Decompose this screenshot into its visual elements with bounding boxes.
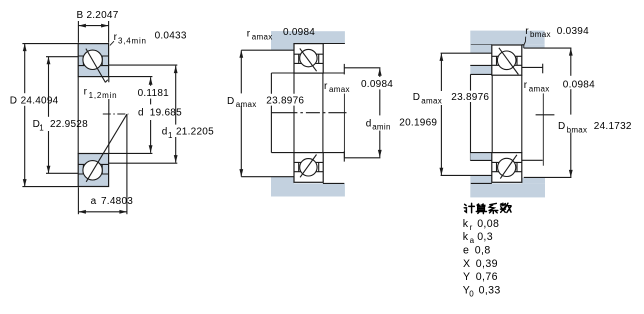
bearing left face line between sections (left diagram) — [77, 77, 79, 154]
bearing section bottom (right diagram) — [492, 153, 522, 183]
shaft sleeve top-right of bearing (right diagram) — [522, 66, 543, 68]
dimension d1 (inner ring land diameter) — [109, 65, 178, 163]
dimension Damax (right diagram) — [440, 53, 444, 175]
svg-text:D: D — [413, 92, 420, 103]
svg-text:amin: amin — [372, 122, 391, 131]
svg-text:0,8: 0,8 — [475, 245, 491, 257]
housing bore line left of bearing (right diagram) — [471, 44, 492, 46]
bearing left face between sections (middle diagram) — [293, 73, 295, 153]
svg-text:20.1969: 20.1969 — [399, 118, 437, 129]
shaft sleeve block top-left (right diagram) — [470, 65, 492, 74]
svg-text:D: D — [558, 121, 565, 132]
Da shoulder edge + extension bottom (right diagram) — [441, 174, 492, 176]
svg-text:0: 0 — [469, 290, 474, 299]
sleeve edges bottom-left (right diagram) — [470, 153, 492, 161]
housing shoulder block bottom-left Da (right diagram) — [470, 175, 492, 183]
svg-text:0.0394: 0.0394 — [557, 26, 589, 37]
shaft sleeve block bottom-left (right diagram) — [470, 153, 492, 161]
housing bore line bottom left of bearing (right diagram) — [471, 182, 492, 184]
svg-text:r: r — [324, 81, 328, 92]
sleeve top edge (right diagram) — [470, 64, 492, 66]
svg-text:k: k — [463, 218, 469, 230]
svg-text:B 2.2047: B 2.2047 — [77, 10, 119, 21]
housing band top (right diagram) — [470, 31, 544, 45]
svg-text:amax: amax — [252, 33, 273, 42]
svg-text:amax: amax — [529, 84, 550, 93]
svg-text:amax: amax — [236, 100, 257, 109]
svg-text:r: r — [247, 28, 251, 39]
Da extension / housing shoulder edge top (middle diagram) — [241, 49, 294, 51]
svg-text:0,76: 0,76 — [476, 271, 498, 283]
shaft shoulder top surface da (middle diagram) — [344, 67, 380, 69]
housing band bottom (middle diagram) — [271, 183, 345, 196]
dimension D (outside diameter) — [22, 44, 78, 187]
svg-text:1: 1 — [39, 123, 44, 132]
dimension damin (middle diagram) — [378, 68, 382, 157]
svg-text:24.4094: 24.4094 — [21, 95, 59, 106]
dimension Dbmax (right diagram) — [569, 48, 573, 177]
axis centreline at pressure centre (left diagram) — [103, 113, 129, 115]
shaft end face left (right diagram) — [470, 74, 472, 160]
svg-text:0.0984: 0.0984 — [283, 27, 315, 38]
label r3,4min 0.0433 with leader — [110, 31, 187, 46]
dimension d (bore) — [109, 77, 153, 154]
contact angle line bottom (right diagram) — [500, 155, 517, 179]
svg-text:amax: amax — [421, 97, 442, 106]
svg-text:Y: Y — [463, 271, 470, 283]
ball bottom (middle diagram) — [300, 159, 317, 176]
ra fillet leader right diagram — [542, 93, 544, 165]
svg-text:23.8976: 23.8976 — [451, 92, 489, 103]
sleeve end face top-right (right diagram) — [542, 64, 544, 74]
housing shoulder block bottom-left (middle diagram) — [271, 177, 294, 197]
dimension D1 (outer ring land diameter) — [46, 57, 78, 174]
svg-text:r: r — [525, 26, 529, 37]
bearing section bottom (middle diagram) — [294, 153, 323, 183]
svg-text:r: r — [524, 80, 528, 91]
svg-text:0.0433: 0.0433 — [155, 31, 187, 42]
shaft shoulder face bottom (middle diagram) — [343, 151, 345, 161]
svg-text:d: d — [162, 127, 168, 138]
rb leader (right diagram) — [524, 37, 526, 46]
ball bottom (left diagram) — [83, 161, 102, 180]
housing shoulder block top-left Da (right diagram) — [470, 45, 492, 53]
heading (Chinese: calculation factors) drawn as strokes — [464, 203, 511, 213]
contact angle line top (left diagram) — [86, 49, 108, 83]
bearing right face between sections (right diagram) — [521, 75, 523, 152]
svg-text:24.1732: 24.1732 — [594, 121, 632, 132]
contact angle line top (right diagram) — [499, 48, 519, 75]
contact angle line top (middle diagram) — [300, 48, 317, 71]
svg-text:d: d — [138, 108, 144, 119]
svg-text:amax: amax — [329, 85, 350, 94]
housing shoulder block top-left (middle diagram) — [271, 31, 294, 50]
shaft surface top right of bearing (middle diagram) — [323, 72, 344, 74]
Db shoulder surface top (right diagram) — [524, 47, 572, 49]
shaft surface top (middle diagram) — [271, 72, 294, 74]
housing band top (middle diagram) — [271, 31, 345, 43]
ball top (left diagram) — [83, 50, 102, 69]
sleeve bottom / shaft surface top (right diagram) — [471, 73, 492, 75]
svg-text:1: 1 — [168, 131, 173, 140]
svg-text:0,39: 0,39 — [476, 258, 498, 270]
housing recess strip below Db shoulder bottom (right diagram) — [522, 178, 545, 184]
shaft sleeve bottom-right of bearing (right diagram) — [522, 159, 543, 161]
dimension B (width) — [78, 21, 108, 43]
svg-text:r: r — [114, 32, 118, 43]
svg-text:a: a — [91, 196, 97, 207]
svg-text:3,4min: 3,4min — [118, 37, 147, 46]
ball bottom (right diagram) — [498, 158, 516, 176]
svg-text:23.8976: 23.8976 — [266, 95, 304, 106]
shaft end face (middle diagram) — [270, 73, 272, 153]
svg-text:X: X — [463, 258, 470, 270]
svg-text:bmax: bmax — [567, 125, 588, 134]
housing bore line bottom right of bearing (middle diagram) — [323, 182, 344, 184]
svg-text:r: r — [84, 86, 88, 97]
svg-text:D: D — [227, 96, 234, 107]
axis centreline tick (right diagram) — [536, 114, 555, 116]
svg-text:1,2min: 1,2min — [89, 91, 118, 100]
bearing section top (middle diagram) — [294, 44, 323, 74]
contact angle line bottom to pressure centre (left diagram) — [86, 114, 127, 182]
housing band bottom (right diagram) — [470, 183, 545, 197]
bearing left face between sections (right diagram) — [491, 75, 493, 152]
ball top (middle diagram) — [300, 49, 317, 66]
outer/inner ring section top (left diagram) — [78, 44, 108, 77]
axis centreline (middle diagram) — [271, 112, 346, 114]
bearing section top (right diagram) — [492, 45, 522, 75]
Db shoulder surface bottom (right diagram) — [524, 176, 572, 178]
svg-text:0,3: 0,3 — [477, 231, 493, 243]
rb fillet step (right diagram) — [523, 45, 525, 48]
svg-text:bmax: bmax — [530, 30, 551, 39]
svg-text:21.2205: 21.2205 — [176, 127, 214, 138]
ball top (right diagram) — [497, 51, 516, 70]
outer/inner ring section bottom (left diagram) — [78, 154, 108, 187]
Da extension / housing shoulder edge bottom (middle diagram) — [241, 176, 294, 178]
svg-text:7.4803: 7.4803 — [101, 196, 133, 207]
svg-text:0.0984: 0.0984 — [361, 79, 393, 90]
svg-text:k: k — [463, 231, 469, 243]
svg-text:19.685: 19.685 — [150, 108, 182, 119]
ra fillet leader (middle diagram) — [343, 94, 345, 158]
housing bore line right of bearing (right diagram) — [522, 44, 524, 46]
svg-text:d: d — [366, 118, 372, 129]
shaft surface bottom (middle diagram) — [271, 152, 294, 154]
Da shoulder edge + extension top (right diagram) — [441, 52, 492, 54]
bearing right face line / r leader (left diagram) — [108, 77, 110, 154]
svg-text:0.1181: 0.1181 — [138, 88, 170, 99]
shaft shoulder bottom surface da (middle diagram) — [344, 157, 380, 159]
svg-text:0,33: 0,33 — [479, 285, 501, 297]
contact angle line bottom (middle diagram) — [300, 155, 316, 178]
svg-text:0.0984: 0.0984 — [563, 79, 595, 90]
bearing right face between sections (middle diagram) — [322, 73, 324, 153]
svg-text:D: D — [10, 95, 17, 106]
svg-text:0,08: 0,08 — [477, 218, 499, 230]
svg-text:22.9528: 22.9528 — [50, 119, 88, 130]
dimension a (pressure centre distance) — [78, 114, 127, 214]
housing recess strip above Db shoulder (right diagram) — [522, 45, 545, 48]
housing bore line right of bearing (middle diagram) — [323, 43, 345, 45]
shaft surface bottom right of bearing (middle diagram) — [323, 152, 344, 154]
shaft shoulder face top (middle diagram) — [343, 64, 345, 75]
svg-text:e: e — [463, 245, 469, 257]
svg-text:r: r — [470, 223, 473, 232]
dimension Damax (middle diagram) — [239, 50, 243, 176]
